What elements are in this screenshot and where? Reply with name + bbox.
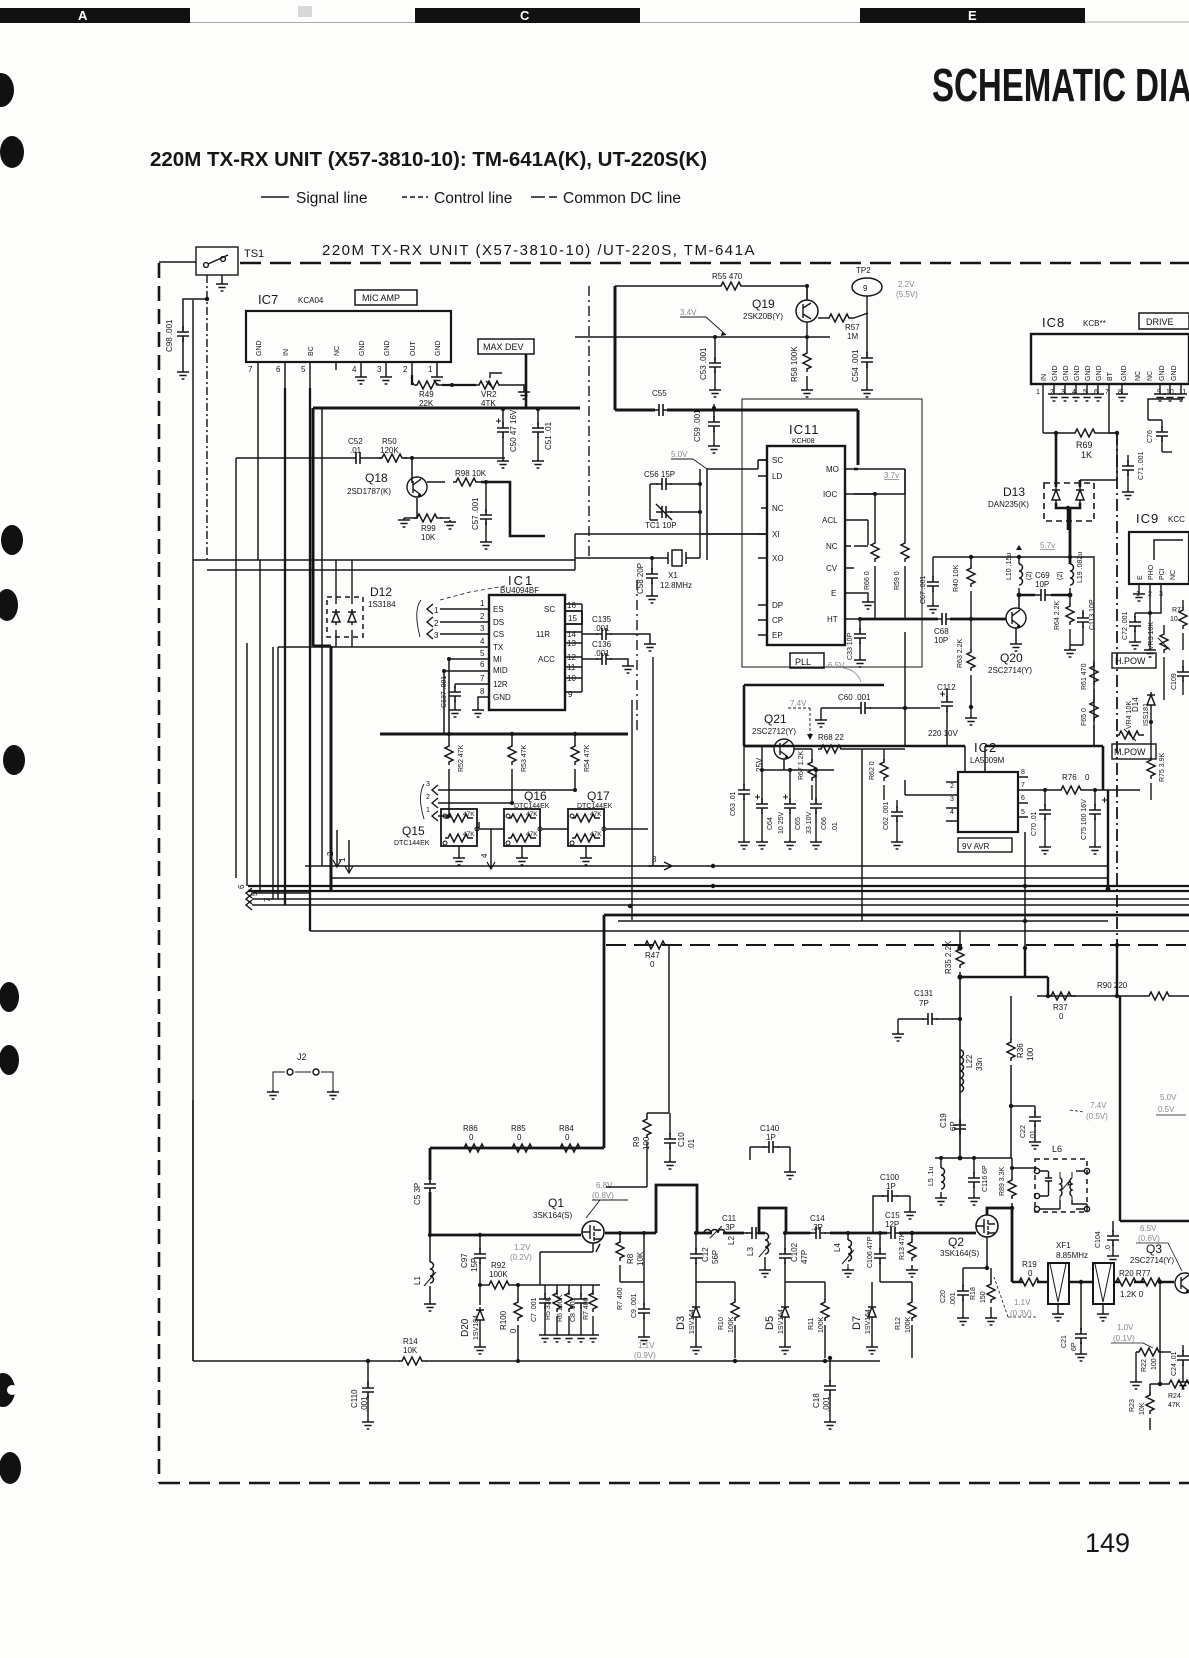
bus line y884 heavy — [248, 890, 1189, 892]
voltage 5.0V right — [1158, 1093, 1177, 1114]
punch-hole blob 7 — [0, 1045, 19, 1075]
svg-text:D12: D12 — [370, 585, 392, 599]
svg-text:C: C — [520, 8, 530, 23]
svg-text:NC: NC — [1135, 371, 1142, 381]
capacitor C72 — [1122, 598, 1152, 649]
wire Q2 drain — [987, 1208, 1012, 1282]
svg-text:1.2V: 1.2V — [514, 1243, 531, 1252]
svg-text:C76: C76 — [1147, 430, 1154, 443]
svg-text:Q16: Q16 — [524, 789, 547, 803]
svg-text:R90 220: R90 220 — [1097, 981, 1128, 990]
wire XI long left — [193, 534, 575, 570]
junction rows — [696, 1281, 912, 1283]
resistor R76 — [1028, 773, 1140, 794]
svg-text:10K: 10K — [421, 533, 436, 542]
svg-text:SCHEMATIC DIA: SCHEMATIC DIA — [932, 59, 1189, 111]
svg-text:220 10V: 220 10V — [928, 729, 958, 738]
voltage 7.4V — [788, 699, 813, 740]
svg-text:100: 100 — [1151, 1358, 1158, 1370]
svg-text:4: 4 — [352, 365, 357, 374]
svg-text:R5 33K: R5 33K — [545, 1296, 552, 1320]
svg-text:E: E — [831, 589, 836, 598]
resistor R75 — [1147, 740, 1166, 800]
transistor Q1 — [533, 1196, 604, 1243]
registration bar A — [0, 8, 190, 23]
resistor R50 — [379, 437, 407, 462]
svg-text:CV: CV — [826, 564, 838, 573]
svg-text:11: 11 — [1179, 389, 1186, 396]
capacitor C56 — [644, 470, 700, 520]
voltage 1.1V 0.3V — [1010, 1298, 1032, 1318]
arrows 1 2 3 — [417, 600, 489, 640]
svg-text:C51 .01: C51 .01 — [544, 421, 553, 450]
svg-text:ES: ES — [493, 605, 504, 614]
svg-text:GND: GND — [493, 693, 511, 702]
svg-text:(0.9V): (0.9V) — [634, 1351, 656, 1360]
svg-text:C56 15P: C56 15P — [644, 470, 675, 479]
transistor Q21 — [752, 712, 796, 759]
capacitor C131 — [892, 989, 962, 1041]
svg-text:.3P: .3P — [723, 1223, 735, 1232]
svg-text:.01: .01 — [1030, 1130, 1037, 1140]
dashed border left — [158, 263, 161, 1483]
transistor Q16 — [504, 789, 550, 865]
wire L3 bump — [759, 1208, 810, 1233]
svg-text:47K: 47K — [463, 811, 475, 818]
capacitor C76 — [1147, 420, 1172, 452]
svg-text:MIC AMP: MIC AMP — [362, 293, 400, 303]
svg-text:2: 2 — [326, 851, 335, 856]
wire IC2 block rails — [744, 746, 1103, 790]
wire r55 row — [615, 285, 806, 287]
svg-text:C33 10P: C33 10P — [847, 632, 854, 660]
resistor R85 — [509, 1124, 537, 1152]
svg-text:R8: R8 — [626, 1253, 635, 1264]
legend signal line — [261, 190, 368, 207]
connector J2 — [267, 1052, 339, 1099]
capacitor C15 — [885, 1211, 901, 1239]
transistor Q3 — [1130, 1242, 1189, 1293]
svg-text:R67 1.2K: R67 1.2K — [798, 750, 805, 780]
resistor R67 — [798, 749, 816, 800]
svg-text:R47: R47 — [645, 951, 660, 960]
svg-text:R7: R7 — [1172, 607, 1181, 614]
svg-text:1: 1 — [1036, 389, 1040, 396]
resistor R9 — [606, 1116, 651, 1187]
capacitor C110 — [350, 1359, 374, 1429]
svg-text:R6 100K: R6 100K — [557, 1294, 564, 1322]
legend common DC line — [531, 190, 681, 207]
control line vertical x589 — [588, 286, 590, 558]
resistor R24 — [1160, 1380, 1189, 1409]
svg-text:150: 150 — [980, 1291, 987, 1303]
resistor R53 — [508, 734, 528, 788]
svg-text:.3P: .3P — [811, 1223, 823, 1232]
svg-text:11R: 11R — [536, 630, 550, 639]
svg-text:Q20: Q20 — [1000, 651, 1023, 665]
resistor R40 — [953, 557, 1006, 619]
wire IC1 bottom heavy — [380, 733, 628, 736]
svg-text:R64 2.2K: R64 2.2K — [1054, 600, 1061, 630]
svg-text:MID: MID — [493, 666, 508, 675]
svg-text:3: 3 — [480, 624, 485, 633]
svg-text:12P: 12P — [885, 1220, 899, 1229]
svg-text:R7 400: R7 400 — [617, 1287, 624, 1310]
svg-text:0.5V: 0.5V — [1158, 1105, 1175, 1114]
wire R7/C9 column — [617, 1231, 650, 1344]
capacitor C75 — [1081, 788, 1107, 854]
capacitor C71 — [1122, 451, 1145, 499]
svg-text:8: 8 — [480, 687, 485, 696]
IC8 pins — [1036, 365, 1187, 401]
wire IC8 pin1 down — [1043, 394, 1056, 433]
svg-text:(2): (2) — [1057, 571, 1064, 580]
wire MO loop — [854, 469, 905, 546]
svg-text:GND: GND — [384, 340, 391, 356]
capacitor C116 — [968, 1165, 989, 1205]
wire R90 220 — [1037, 981, 1189, 1000]
svg-text:15P: 15P — [470, 1258, 479, 1272]
svg-text:L5 .1u: L5 .1u — [928, 1166, 935, 1186]
svg-text:1SV164: 1SV164 — [865, 1309, 872, 1334]
svg-text:IC9: IC9 — [1136, 511, 1159, 526]
svg-text:1: 1 — [434, 606, 439, 615]
svg-text:GND: GND — [1085, 365, 1092, 381]
9V AVR label — [958, 838, 1012, 852]
registration bar E — [860, 8, 1085, 23]
wire vertical x322 — [321, 408, 323, 866]
svg-text:C10: C10 — [677, 1132, 686, 1147]
resistor R84 — [557, 1124, 585, 1152]
svg-text:R89 3.3K: R89 3.3K — [999, 1166, 1006, 1196]
svg-text:(0.1V): (0.1V) — [1113, 1334, 1135, 1343]
wire 3.4v row — [575, 336, 830, 338]
svg-text:.0: .0 — [1105, 1245, 1112, 1251]
legend control line — [402, 190, 512, 207]
svg-text:NC: NC — [826, 542, 838, 551]
punch-hole blob 3 — [1, 525, 23, 555]
capacitor C22 — [1009, 1104, 1041, 1149]
wire q1 gate2 — [560, 1243, 600, 1252]
svg-text:47K: 47K — [590, 831, 602, 838]
svg-text:R14: R14 — [403, 1337, 418, 1346]
wire vertical x273 — [272, 647, 274, 899]
svg-text:5.0V: 5.0V — [1160, 1093, 1177, 1102]
svg-text:L22: L22 — [965, 1054, 974, 1068]
svg-text:Q21: Q21 — [764, 712, 787, 726]
svg-text:C69: C69 — [1035, 571, 1050, 580]
capacitor C67 — [920, 575, 939, 613]
svg-text:PHO: PHO — [1148, 564, 1155, 580]
capacitor C21 — [1061, 1280, 1087, 1361]
svg-text:.001: .001 — [594, 649, 610, 658]
punch-hole blob 1 — [0, 73, 14, 107]
svg-text:R9: R9 — [632, 1136, 641, 1147]
resistor R36 — [1007, 1039, 1035, 1106]
svg-text:100: 100 — [642, 1136, 651, 1150]
svg-text:A: A — [78, 8, 88, 23]
svg-text:Q15: Q15 — [402, 824, 425, 838]
punch-hole blob 4 — [0, 589, 18, 621]
transistor Q2 — [940, 1215, 998, 1258]
svg-text:.01: .01 — [687, 1138, 696, 1150]
bus line y913 heavy — [604, 914, 1189, 917]
bus line y898 — [262, 898, 1189, 900]
svg-text:VR4 10K: VR4 10K — [1126, 701, 1133, 729]
svg-text:R98 10K: R98 10K — [455, 469, 487, 478]
svg-text:7: 7 — [1021, 782, 1025, 789]
svg-text:TP2: TP2 — [856, 266, 871, 275]
svg-text:5: 5 — [301, 365, 306, 374]
diode D5 — [764, 1282, 791, 1354]
wire IOC row — [854, 469, 905, 494]
svg-text:.001: .001 — [360, 1396, 369, 1412]
wire left border lower-right block — [1011, 1106, 1012, 1158]
svg-text:2: 2 — [426, 794, 430, 801]
svg-text:R40 10K: R40 10K — [953, 564, 960, 592]
svg-text:C14: C14 — [810, 1214, 825, 1223]
svg-text:1: 1 — [426, 807, 430, 814]
resistor R98 — [427, 469, 545, 536]
svg-text:GND: GND — [435, 340, 442, 356]
svg-text:C5 3P: C5 3P — [413, 1183, 422, 1205]
svg-text:C54 .001: C54 .001 — [851, 349, 860, 382]
svg-text:ACL: ACL — [822, 516, 838, 525]
capacitor C59 — [693, 404, 720, 453]
svg-text:1P: 1P — [886, 1182, 896, 1191]
svg-text:C60 .001: C60 .001 — [838, 693, 871, 702]
svg-text:Q19: Q19 — [752, 297, 775, 311]
pot VR4 — [1116, 701, 1144, 741]
svg-text:R35 2.2K: R35 2.2K — [944, 940, 953, 974]
svg-text:(0.5V): (0.5V) — [1086, 1112, 1108, 1121]
svg-text:R19: R19 — [1022, 1260, 1037, 1269]
capacitor C68 — [934, 613, 952, 645]
punch-hole blob 8 — [0, 1372, 7, 1408]
svg-text:C15: C15 — [885, 1211, 900, 1220]
svg-text:C53 .001: C53 .001 — [699, 347, 708, 380]
svg-text:C98 .001: C98 .001 — [165, 319, 174, 352]
wire GND pin8 — [478, 697, 489, 708]
capacitor C140 bridge — [750, 1124, 796, 1179]
svg-text:4: 4 — [480, 853, 489, 858]
svg-text:XO: XO — [772, 554, 784, 563]
svg-text:3: 3 — [950, 796, 954, 803]
wire lower right block left border — [1010, 996, 1012, 1040]
svg-text:C102: C102 — [790, 1242, 799, 1262]
svg-text:KCB**: KCB** — [1083, 319, 1106, 328]
svg-text:12.8MHz: 12.8MHz — [660, 581, 692, 590]
svg-text:C24 .01: C24 .01 — [1171, 1351, 1178, 1376]
voltage 1.1V — [634, 1341, 656, 1360]
capacitor C135 — [582, 615, 656, 651]
svg-text:IN: IN — [1041, 374, 1048, 381]
svg-text:7.4V: 7.4V — [790, 699, 807, 708]
svg-text:Common DC line: Common DC line — [563, 190, 681, 207]
svg-text:R69: R69 — [1076, 440, 1093, 450]
wire to D13 — [1056, 433, 1080, 487]
svg-text:C112: C112 — [937, 683, 956, 692]
svg-text:8: 8 — [1021, 769, 1025, 776]
svg-text:KCH08: KCH08 — [792, 438, 815, 445]
svg-text:R84: R84 — [559, 1124, 574, 1133]
node dot — [410, 456, 414, 460]
svg-text:IN: IN — [283, 349, 290, 356]
svg-text:C7 .001: C7 .001 — [531, 1297, 538, 1322]
svg-text:C9 .001: C9 .001 — [631, 1293, 638, 1318]
svg-text:HT: HT — [827, 615, 838, 624]
svg-text:100K: 100K — [905, 1316, 912, 1333]
svg-text:R50: R50 — [382, 437, 397, 446]
svg-text:3SK164(S): 3SK164(S) — [533, 1211, 572, 1220]
wire top heavy rail — [430, 1148, 604, 1180]
wire main chain — [605, 1185, 697, 1233]
svg-text:0: 0 — [469, 1133, 474, 1142]
svg-text:XF1: XF1 — [1056, 1241, 1071, 1250]
resistor R69 — [1056, 429, 1119, 460]
svg-text:D3: D3 — [675, 1316, 687, 1330]
wire BT down — [1109, 394, 1117, 433]
svg-text:1M: 1M — [847, 332, 858, 341]
svg-text:1SV164: 1SV164 — [778, 1309, 785, 1334]
wire q1 source rail — [430, 1234, 581, 1237]
punch-hole blob 9 — [0, 1452, 21, 1484]
resistor R57 — [818, 313, 868, 341]
svg-text:KCC: KCC — [1168, 515, 1185, 524]
svg-text:D13: D13 — [1003, 485, 1025, 499]
svg-text:47K: 47K — [526, 831, 538, 838]
resistor R54 — [571, 734, 591, 788]
svg-text:R53 47K: R53 47K — [521, 744, 528, 772]
capacitor C19 — [939, 1113, 966, 1135]
svg-text:R59 0: R59 0 — [894, 571, 901, 590]
voltage 6.5V — [1138, 1224, 1160, 1243]
capacitor C66 — [810, 768, 839, 849]
wire block bottom — [305, 657, 1108, 920]
svg-text:C21: C21 — [1061, 1335, 1068, 1348]
svg-text:33n: 33n — [975, 1058, 984, 1071]
voltage 5.0V — [671, 450, 707, 469]
svg-text:7.4V: 7.4V — [1090, 1101, 1107, 1110]
svg-text:ACC: ACC — [538, 655, 555, 664]
svg-text:C22: C22 — [1020, 1125, 1027, 1138]
svg-text:2SC2712(Y): 2SC2712(Y) — [752, 727, 796, 736]
resistor R66 — [864, 492, 879, 619]
svg-text:Control line: Control line — [434, 190, 512, 207]
VCO box — [933, 557, 1094, 745]
svg-text:2: 2 — [403, 365, 408, 374]
inductor L3 — [746, 1233, 771, 1277]
svg-text:C64: C64 — [767, 817, 774, 830]
pot VR2 — [476, 373, 524, 408]
capacitor C63 — [730, 746, 750, 849]
svg-text:6: 6 — [237, 884, 246, 889]
svg-text:2: 2 — [480, 612, 485, 621]
svg-text:MO: MO — [826, 465, 839, 474]
svg-text:X1: X1 — [668, 571, 678, 580]
resistor R37 — [1048, 992, 1076, 1021]
svg-text:DRIVE: DRIVE — [1146, 317, 1174, 327]
M.POW label — [1112, 744, 1156, 759]
wire c52 row — [236, 457, 505, 459]
svg-text:(0.8V): (0.8V) — [592, 1191, 614, 1200]
capacitor C100 bridge — [873, 1173, 916, 1233]
svg-text:1.0V: 1.0V — [1117, 1323, 1134, 1332]
svg-text:1.1V: 1.1V — [1014, 1298, 1031, 1307]
svg-text:GND: GND — [1063, 365, 1070, 381]
resistor R64 — [1054, 595, 1076, 657]
svg-text:MAX DEV: MAX DEV — [483, 342, 524, 352]
svg-text:C135: C135 — [592, 615, 612, 624]
resistor R52 — [445, 734, 465, 795]
svg-text:C59 .001: C59 .001 — [693, 409, 702, 442]
svg-text:47K: 47K — [526, 811, 538, 818]
svg-text:R58 100K: R58 100K — [790, 346, 799, 382]
capacitor C104 — [1095, 1221, 1119, 1263]
faint header rule — [190, 21, 1189, 24]
ic IC8 — [1031, 315, 1189, 384]
svg-text:149: 149 — [1085, 1528, 1130, 1558]
svg-text:7: 7 — [480, 674, 485, 683]
svg-text:C70 .01: C70 .01 — [1031, 811, 1038, 836]
svg-text:0: 0 — [650, 960, 655, 969]
capacitor C50 — [496, 408, 518, 468]
resistor R11 — [808, 1282, 829, 1358]
trimmer TC1 — [645, 469, 767, 534]
svg-text:2SK20B(Y): 2SK20B(Y) — [743, 312, 783, 321]
svg-text:H.POW: H.POW — [1115, 656, 1146, 666]
svg-text:R18: R18 — [970, 1287, 977, 1300]
capacitor C62 — [883, 800, 903, 849]
wire E stub — [854, 593, 868, 600]
resistor R14 — [399, 1337, 427, 1365]
resistor R58 — [790, 337, 813, 397]
svg-text:6P: 6P — [1071, 1342, 1078, 1351]
svg-text:GND: GND — [359, 340, 366, 356]
punch-hole blob 6 — [0, 982, 19, 1012]
svg-text:IC11: IC11 — [789, 422, 820, 437]
svg-text:R92: R92 — [491, 1261, 506, 1270]
svg-text:10K: 10K — [1139, 1402, 1146, 1415]
bus exit arrow 3 — [648, 855, 715, 870]
wire xf1 row — [1012, 1281, 1174, 1284]
inductor L1 — [413, 1233, 436, 1311]
svg-text:Q2: Q2 — [948, 1235, 964, 1249]
svg-text:IOC: IOC — [823, 490, 837, 499]
svg-text:EP: EP — [772, 631, 783, 640]
svg-text:6.8V: 6.8V — [596, 1181, 613, 1190]
svg-text:C104: C104 — [1095, 1231, 1102, 1248]
svg-text:(0.2V): (0.2V) — [510, 1253, 532, 1262]
svg-text:47K: 47K — [590, 811, 602, 818]
svg-text:10K: 10K — [403, 1346, 418, 1355]
resistor R12 — [895, 1282, 916, 1358]
svg-text:100K: 100K — [489, 1270, 508, 1279]
svg-text:12R: 12R — [493, 680, 508, 689]
resistor R49 — [414, 381, 476, 408]
transistor Q18 — [347, 458, 427, 497]
svg-text:0: 0 — [1059, 1012, 1064, 1021]
capacitor C106 — [867, 1231, 886, 1282]
svg-text:D5: D5 — [764, 1316, 776, 1330]
filter XF1b — [1093, 1263, 1114, 1321]
svg-text:DAN235(K): DAN235(K) — [988, 500, 1029, 509]
svg-text:.001: .001 — [950, 1292, 957, 1306]
svg-text:DS: DS — [493, 618, 504, 627]
ic IC9 — [1129, 511, 1189, 584]
svg-text:3.7v: 3.7v — [884, 471, 899, 480]
svg-text:OUT: OUT — [410, 341, 417, 357]
